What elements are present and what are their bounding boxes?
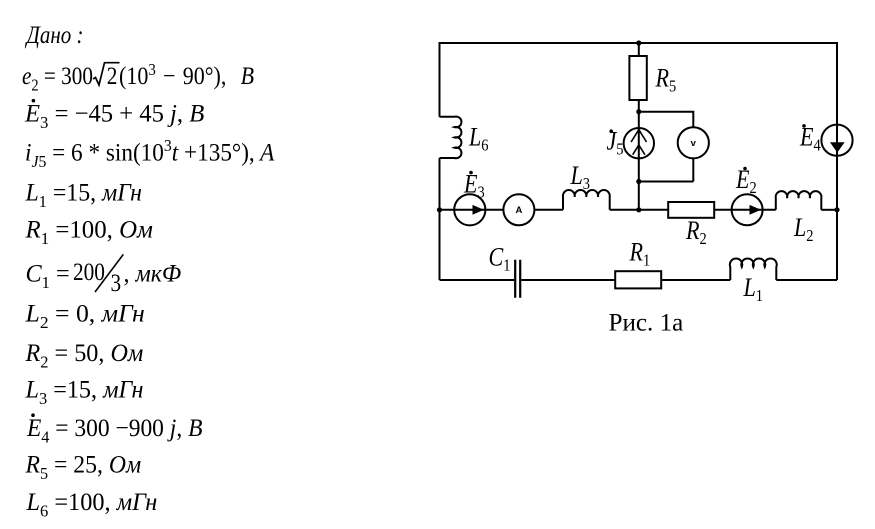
svg-text:Рис. 1а: Рис. 1а [609,308,684,336]
node dot top center [636,40,641,45]
wire middle left [440,209,504,211]
svg-text:v: v [691,138,697,149]
svg-text:L3 =15, мГн: L3 =15, мГн [25,376,144,408]
wire center branch vertical [638,43,640,182]
svg-text:L6 =100, мГн: L6 =100, мГн [26,489,158,521]
svg-text:L3: L3 [570,163,591,194]
svg-text:(103 − 90°), B: (103 − 90°), B [119,61,254,90]
svg-text:iJ5 = 6 * sin(103t +135°), A: iJ5 = 6 * sin(103t +135°), A [25,136,275,171]
svg-text:2: 2 [107,62,118,90]
node dot below J5 [636,179,641,184]
wire bottom right [776,279,837,281]
svg-text:A: A [515,205,522,216]
capacitor C1 [515,260,520,298]
sqrt radical of e2 [93,63,120,85]
wire middle right [610,209,776,211]
svg-text:E4: E4 [799,124,821,155]
wire middle between ammeter and L3 [534,209,563,211]
wire top side [440,42,838,44]
inductor L3 [563,190,610,210]
voltage source E2 [732,194,763,225]
svg-text:R5 = 25, Ом: R5 = 25, Ом [25,451,142,483]
voltage source E3 [454,194,485,225]
svg-text:Дано :: Дано : [25,20,84,48]
svg-text:200: 200 [73,258,105,286]
svg-text:E4 = 300 −900 j, B: E4 = 300 −900 j, B [26,414,203,446]
svg-text:J5: J5 [607,128,624,159]
svg-text:3: 3 [111,269,122,297]
resistor R1 [615,271,661,288]
voltmeter V [678,127,709,158]
wire left side upper [439,42,441,117]
svg-text:C1: C1 [489,244,511,275]
node dot left-middle [437,207,442,212]
svg-text:C1 =: C1 = [26,260,70,292]
resistor R2 [668,202,714,218]
svg-text:R2: R2 [685,217,707,248]
inductor L1 [730,258,777,280]
svg-text:L6: L6 [468,124,489,155]
current source J5 [624,128,654,158]
ammeter A1 [503,194,534,225]
svg-text:R2 = 50, Ом: R2 = 50, Ом [25,340,144,372]
wire voltmeter branch bottom [639,158,694,181]
inductor L6 [440,117,462,159]
node dot below R5 [636,109,641,114]
svg-text:e2 = 300: e2 = 300 [22,62,93,94]
wire bottom middle [521,279,730,281]
wire right side [836,42,838,280]
node dot right-middle [834,207,839,212]
svg-text:L2 = 0, мГн: L2 = 0, мГн [24,300,144,332]
wire bottom left [440,279,515,281]
svg-text:L2: L2 [793,214,814,245]
wire middle to right side [821,209,837,211]
svg-text:, мкФ: , мкФ [124,260,182,288]
wire voltmeter branch top [639,112,694,128]
voltage source E4 [821,125,852,156]
svg-text:R1: R1 [629,239,651,270]
inductor L2 [776,191,822,210]
svg-text:L1 =15, мГн: L1 =15, мГн [25,179,142,211]
svg-text:R1 =100, Ом: R1 =100, Ом [25,216,154,248]
resistor R5 [629,56,646,100]
svg-text:R5: R5 [655,65,677,96]
wire left side lower [439,158,441,280]
svg-text:E3 = −45 + 45 j, B: E3 = −45 + 45 j, B [24,100,204,132]
node dot center-middle [636,207,641,212]
svg-text:E2: E2 [735,166,757,197]
svg-text:E3: E3 [463,171,485,202]
wire center branch to middle node [638,182,640,210]
svg-text:L1: L1 [743,274,763,305]
